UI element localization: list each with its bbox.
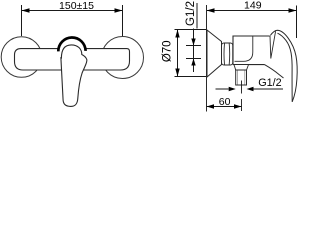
arrow up [191,59,195,66]
svg-text:149: 149 [244,0,262,12]
mixer body front [15,49,130,70]
dim 150±15 extension line right [122,5,124,36]
inner cover contour [235,37,253,62]
wall line [206,5,208,112]
G1/2 dim ext top [186,45,201,47]
Ø70 dim ext top [175,29,207,31]
dim 60 line [207,106,242,108]
arrow left [207,104,215,108]
cartridge dome [58,37,85,51]
escutcheon circle right [102,37,144,79]
arrow down [175,69,179,77]
tube thread line left [236,71,238,85]
leader left segment [216,88,229,90]
Ø70 dim line [177,30,179,77]
G1/2 underline [196,3,198,29]
body side fill [233,36,272,65]
dim 149 extension right [296,6,298,39]
Ø70 dim ext bottom [175,76,207,78]
lever handle front [61,45,87,107]
svg-text:G1/2: G1/2 [185,1,197,26]
arrow right [289,8,297,12]
outlet tube [236,70,247,85]
arrow up [175,30,179,38]
leader right segment [254,88,284,90]
tube thread line right [244,71,246,85]
arrow left [22,8,30,12]
dim 149 line [207,10,297,12]
dim 150±15 extension line left [21,5,23,36]
handle blade outer edge [270,30,297,102]
arrow left [207,8,215,12]
leader right arrow [247,87,254,91]
hex nut [222,43,233,65]
leader left arrow [229,87,236,91]
arrow right [234,104,242,108]
body side outline top-left [233,36,270,65]
svg-text:G1/2: G1/2 [258,77,281,89]
handle blade inner edge [278,33,293,102]
svg-text:150±15: 150±15 [59,0,94,12]
dim 150±15 line [22,10,123,12]
outlet centerline [241,81,243,94]
handle wedge front [270,31,276,58]
G1/2 dim vertical line [193,29,195,73]
escutcheon cone side [207,30,222,77]
arrow down [191,39,195,46]
outlet collar [234,65,249,70]
rear bottom curve [265,65,284,78]
body side bottom [233,64,265,66]
G1/2 dim ext bottom [186,58,201,60]
svg-text:Ø70: Ø70 [161,40,173,62]
nut flat line 1 [223,44,226,65]
handle side blade fill [270,30,297,102]
arrow right [115,8,123,12]
escutcheon circle left [1,37,42,78]
nut flat line 2 [228,44,231,65]
